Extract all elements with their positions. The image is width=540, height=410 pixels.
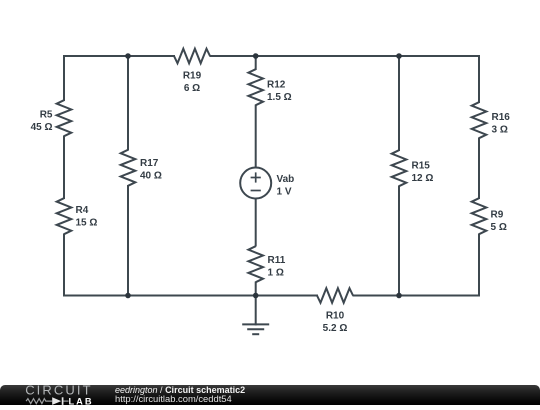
svg-text:R4: R4 <box>76 205 89 216</box>
svg-text:45 Ω: 45 Ω <box>31 122 53 133</box>
svg-text:6 Ω: 6 Ω <box>184 83 200 94</box>
svg-text:R17: R17 <box>140 158 159 169</box>
svg-text:5 Ω: 5 Ω <box>491 222 507 233</box>
svg-text:40 Ω: 40 Ω <box>140 170 162 181</box>
svg-text:1 V: 1 V <box>277 187 292 198</box>
svg-text:R5: R5 <box>40 110 53 121</box>
svg-text:1 Ω: 1 Ω <box>268 267 284 278</box>
svg-text:5.2 Ω: 5.2 Ω <box>323 323 348 334</box>
svg-text:LAB: LAB <box>69 396 94 406</box>
svg-text:R11: R11 <box>268 255 286 266</box>
svg-text:1.5 Ω: 1.5 Ω <box>267 92 292 103</box>
svg-text:R16: R16 <box>492 112 511 123</box>
svg-text:Vab: Vab <box>277 174 295 185</box>
svg-text:R15: R15 <box>412 160 431 171</box>
svg-text:3 Ω: 3 Ω <box>492 125 508 136</box>
svg-text:R9: R9 <box>491 210 504 221</box>
svg-text:R19: R19 <box>183 71 202 82</box>
svg-text:15 Ω: 15 Ω <box>76 217 98 228</box>
svg-text:R10: R10 <box>326 310 345 321</box>
svg-text:R12: R12 <box>267 80 286 91</box>
svg-text:12 Ω: 12 Ω <box>412 173 434 184</box>
